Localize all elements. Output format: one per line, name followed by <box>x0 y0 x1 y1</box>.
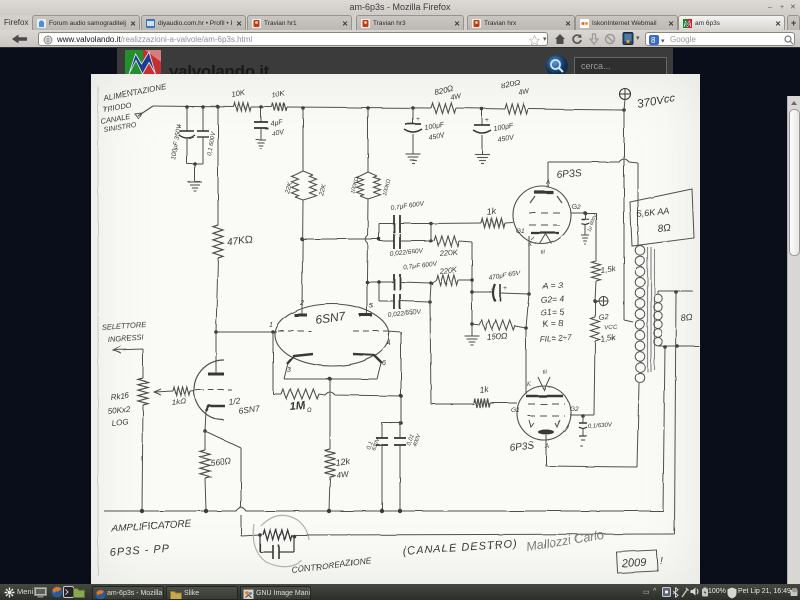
tray <box>643 588 650 596</box>
svg-text:1kΩ: 1kΩ <box>171 396 187 407</box>
svg-text:+: + <box>503 285 507 292</box>
wire ground bus with hop <box>104 508 663 512</box>
svg-text:0,022/650V: 0,022/650V <box>387 308 421 319</box>
svg-text:1k: 1k <box>486 206 497 217</box>
svg-text:Ω: Ω <box>307 408 312 414</box>
6SN7 grid dashes right <box>353 330 387 332</box>
svg-text:5: 5 <box>369 303 373 310</box>
tab bar <box>0 15 800 30</box>
svg-text:2: 2 <box>299 300 304 307</box>
6P3S upper grid dashes <box>529 212 564 214</box>
resistor R 220K lower <box>436 275 458 285</box>
svg-text:0,1 600V: 0,1 600V <box>207 131 217 157</box>
capacitor C 0,1uF 600V <box>202 107 204 131</box>
svg-text:!: ! <box>660 556 663 567</box>
capacitor C 0,1 630V to bus <box>382 422 401 424</box>
svg-text:0,1/630V: 0,1/630V <box>588 422 613 430</box>
resistor R 560ohm cathode <box>204 431 206 450</box>
capacitor C 0,022uF 650V upper <box>378 239 380 241</box>
resistor R 10K second <box>272 103 287 111</box>
wire cathodes join <box>284 363 288 379</box>
wire B+ down to center tap <box>623 110 625 320</box>
resistor R 1,5k upper <box>592 261 601 281</box>
resistor pair 100K plate load right <box>367 108 369 172</box>
transformer primary winding <box>635 246 645 256</box>
svg-text:12k: 12k <box>335 456 351 468</box>
svg-text:10K: 10K <box>271 89 287 100</box>
wire 6P3S lower G2 <box>570 414 594 416</box>
6SN7 grid pin 4 wire <box>387 331 401 332</box>
svg-text:450V: 450V <box>497 134 516 144</box>
svg-text:INGRESSI: INGRESSI <box>108 333 144 344</box>
svg-text:6P3S: 6P3S <box>509 440 535 454</box>
svg-text:370Vcc: 370Vcc <box>636 92 676 111</box>
wire feedback tap diagonal <box>205 431 241 448</box>
svg-text:1,5k: 1,5k <box>600 264 617 275</box>
paper with schematic <box>91 74 700 585</box>
svg-text:(CANALE DESTRO): (CANALE DESTRO) <box>402 538 518 558</box>
svg-text:1: 1 <box>269 322 273 329</box>
node dots on ground bus <box>140 509 144 513</box>
wire 220K junction column x381 <box>471 242 473 324</box>
resistor R 1k grid stopper lower <box>474 399 490 408</box>
svg-text:SELETTORE: SELETTORE <box>102 320 148 332</box>
svg-text:A = 3: A = 3 <box>541 280 563 291</box>
wire 6P3S upper anode to transformer <box>547 162 549 187</box>
home reload down stop icons <box>554 33 566 45</box>
svg-text:G1: G1 <box>511 407 520 414</box>
svg-text:560Ω: 560Ω <box>210 456 232 468</box>
6SN7 cathode pin 6 <box>353 354 382 363</box>
wire G2 column top <box>595 213 597 261</box>
svg-text:22K: 22K <box>318 183 328 198</box>
svg-text:ALIMENTAZIONE: ALIMENTAZIONE <box>102 82 168 103</box>
svg-text:=: = <box>580 444 583 450</box>
wire B+ rail <box>153 106 234 107</box>
6P3S lower cathode bar <box>526 395 563 398</box>
capacitor C 470uF 65V cathode bypass <box>472 291 494 293</box>
svg-text:150Ω: 150Ω <box>486 331 508 342</box>
wire ground bus up to secondary bottom <box>663 347 665 511</box>
wire cap bus x340 upper <box>430 224 432 242</box>
svg-text:50Kx2: 50Kx2 <box>107 405 131 416</box>
6P3S upper filament <box>540 234 552 244</box>
resistor R feedback <box>258 533 262 537</box>
6SN7 grid dashes left <box>278 330 311 332</box>
transformer core lines <box>647 247 649 372</box>
svg-text:K = 8: K = 8 <box>542 318 563 329</box>
svg-text:fil: fil <box>542 369 548 376</box>
svg-text:G2: G2 <box>598 312 610 322</box>
resistor R 1M grid leak <box>272 332 274 394</box>
capacitor C 100uF 450V first <box>412 108 414 124</box>
ground cathode network <box>471 324 473 336</box>
tube U half 6SN7 envelope arc <box>194 360 224 420</box>
svg-text:6P3S - PP: 6P3S - PP <box>109 543 170 559</box>
svg-text:1,5k: 1,5k <box>600 333 617 344</box>
wire grid feed lower channel <box>367 281 379 283</box>
capacitor C 100uF 450V second <box>481 109 483 125</box>
svg-text:G2= 4: G2= 4 <box>540 293 564 305</box>
svg-text:G2: G2 <box>572 204 581 211</box>
capacitor C 100uF 350V electrolytic <box>186 107 188 131</box>
svg-text:4W: 4W <box>336 469 351 480</box>
svg-text:+: + <box>416 116 420 123</box>
tube U 6P3S upper envelope <box>513 186 571 244</box>
svg-text:VCC: VCC <box>605 325 619 332</box>
6SN7 grid pin 1 wire <box>216 331 277 333</box>
svg-text:100μF: 100μF <box>424 122 445 132</box>
arrow from power supply <box>138 106 153 116</box>
svg-text:100μF: 100μF <box>493 123 514 133</box>
svg-text:1M: 1M <box>289 399 306 413</box>
resistor R 1k grid stopper upper <box>431 222 481 225</box>
svg-text:6SN7: 6SN7 <box>238 403 261 416</box>
svg-text:K: K <box>527 382 532 388</box>
svg-text:1μ 600V: 1μ 600V <box>586 213 598 233</box>
svg-text:400V: 400V <box>412 432 422 447</box>
svg-text:47KΩ: 47KΩ <box>227 234 254 248</box>
resistor R 1,5k lower <box>594 301 596 317</box>
wire B+ rail middle <box>287 107 431 108</box>
svg-text:6,6K AA: 6,6K AA <box>636 206 670 219</box>
capacitor C 0,01 400V to bus <box>399 423 401 438</box>
svg-text:4W: 4W <box>518 88 531 97</box>
svg-text:CONTROREAZIONE: CONTROREAZIONE <box>291 555 372 575</box>
svg-text:+: + <box>485 117 489 124</box>
ground filter caps <box>188 181 202 183</box>
svg-text:8Ω: 8Ω <box>657 223 672 235</box>
svg-text:4W: 4W <box>450 93 463 102</box>
title bar <box>0 0 800 15</box>
half tube grid dashes <box>198 389 232 391</box>
svg-text:Rk16: Rk16 <box>110 391 130 402</box>
resistor R 12k 4W cathode <box>329 379 331 449</box>
wire B+ rail right <box>528 109 624 110</box>
svg-text:8: 8 <box>651 36 656 45</box>
resistor R 10K first <box>234 103 251 111</box>
paper margin line <box>97 86 99 576</box>
svg-text:220K: 220K <box>438 265 458 276</box>
wire cathode bus upper 6P3S down <box>528 236 530 294</box>
label box 6,6K AA 8ohm <box>630 189 694 246</box>
wire G2 column down <box>594 341 595 415</box>
feedback network enclosure sketch circle <box>253 515 309 566</box>
capacitor C G2 decoupling upper <box>584 213 586 219</box>
6SN7 plate pin 5 <box>366 310 368 314</box>
taskbar <box>0 584 800 600</box>
wiper arrow to potentiometer <box>155 391 173 392</box>
svg-text:100KΩ: 100KΩ <box>382 179 392 197</box>
svg-text:6P3S: 6P3S <box>556 167 582 181</box>
wire grid feed upper channel <box>302 238 379 240</box>
svg-text:0,022/650V: 0,022/650V <box>389 247 423 258</box>
resistor R 150ohm cathode <box>472 324 480 325</box>
svg-text:8Ω: 8Ω <box>680 312 693 323</box>
wire <box>251 106 272 108</box>
6P3S upper cathode bar <box>531 232 559 234</box>
capacitor C 0,7uF 600V lower <box>379 281 394 283</box>
svg-text:450V: 450V <box>428 132 447 142</box>
wire <box>456 108 505 109</box>
6P3S lower filament <box>538 377 550 390</box>
svg-text:220K: 220K <box>438 247 458 258</box>
wire anode pin2 column <box>302 200 303 310</box>
svg-text:AMPLIFICATORE: AMPLIFICATORE <box>110 518 192 535</box>
svg-text:3: 3 <box>287 367 291 374</box>
svg-text:6SN7: 6SN7 <box>314 309 347 327</box>
potentiometer Rk16 50Kx2 LOG <box>142 349 144 378</box>
wire 6P3S lower anode out <box>545 435 547 466</box>
svg-text:Mallozzi Carlo: Mallozzi Carlo <box>525 528 605 554</box>
6SN7 cathode pin 3 <box>287 354 313 364</box>
wire feedback line to output <box>294 534 675 535</box>
capacitor C 4uF 40V <box>260 107 262 122</box>
svg-text:820Ω: 820Ω <box>501 78 522 91</box>
capacitor C 0,022uF 650V lower <box>378 282 380 301</box>
svg-text:10K: 10K <box>231 88 247 99</box>
wire secondary bottom terminal <box>658 345 699 347</box>
wire secondary top terminal <box>657 291 659 294</box>
svg-text:4: 4 <box>387 340 391 347</box>
wire join filter caps <box>187 163 203 165</box>
svg-text:1k: 1k <box>479 384 490 395</box>
node dots cathode bus <box>527 292 531 296</box>
nav bar <box>0 30 800 48</box>
svg-text:G1= 5: G1= 5 <box>540 306 564 318</box>
svg-text:40V: 40V <box>271 129 286 138</box>
supply terminal circle plus 370Vcc <box>620 89 631 100</box>
wire 6P3S upper G2 <box>571 212 596 214</box>
node G2 VCC terminal <box>595 281 596 301</box>
svg-text:G2: G2 <box>570 406 579 413</box>
6P3S lower anode oval <box>538 430 554 435</box>
resistor R 820ohm 4W first <box>431 103 456 113</box>
svg-text:2009: 2009 <box>621 557 647 570</box>
capacitor C feedback parallel <box>259 535 261 552</box>
svg-text:470μF 65V: 470μF 65V <box>488 269 521 282</box>
6P3S lower grid dashes <box>528 403 565 405</box>
half tube plate <box>214 330 218 334</box>
node dots upper coupling <box>377 237 381 241</box>
valvolando logo <box>125 50 161 76</box>
tube U 6P3S lower envelope <box>517 386 571 440</box>
tube U 6SN7 envelope <box>275 304 389 366</box>
wire anode pin5 column with hop over grid wire <box>365 199 368 310</box>
svg-text:fil: fil <box>540 249 546 256</box>
node dots on B+ rail <box>185 105 189 109</box>
6SN7 plate pin 2 <box>301 310 303 314</box>
svg-text:6: 6 <box>382 360 386 367</box>
capacitor C 0,7uF 600V upper <box>378 224 380 240</box>
svg-text:FIL= 2÷7: FIL= 2÷7 <box>540 333 573 344</box>
resistor R 1k grid input <box>173 387 190 395</box>
svg-text:G1: G1 <box>516 228 525 235</box>
svg-text:4μF: 4μF <box>270 119 284 128</box>
selettore ingressi arrow <box>114 349 143 350</box>
wire feedback column from secondary top <box>675 292 677 534</box>
resistor R 220K upper <box>434 236 459 246</box>
svg-text:100μF 350V: 100μF 350V <box>170 124 183 161</box>
svg-text:0,7μF 600V: 0,7μF 600V <box>403 260 438 272</box>
svg-text:A: A <box>544 444 549 450</box>
wire cap bus x340 down to lower G1 <box>430 283 431 302</box>
wire primary bottom to lower anode <box>637 383 639 467</box>
resistor pair 22K plate load left <box>302 108 304 171</box>
capacitor C 0,1 630V G2 lower <box>582 416 584 423</box>
transformer secondary winding <box>654 294 662 302</box>
back arrow <box>10 33 29 45</box>
resistor R 47K <box>217 107 219 225</box>
half tube cathode wire <box>205 411 206 431</box>
node dots lower coupling <box>377 280 381 284</box>
6P3S lower internal arrows <box>529 420 534 427</box>
half tube cathode <box>206 406 225 411</box>
wire pin4 column x310 <box>400 332 402 423</box>
resistor R 820ohm 4W second <box>505 104 528 114</box>
svg-text:LOG: LOG <box>111 417 129 428</box>
svg-text:0,7μF 600V: 0,7μF 600V <box>390 200 425 212</box>
